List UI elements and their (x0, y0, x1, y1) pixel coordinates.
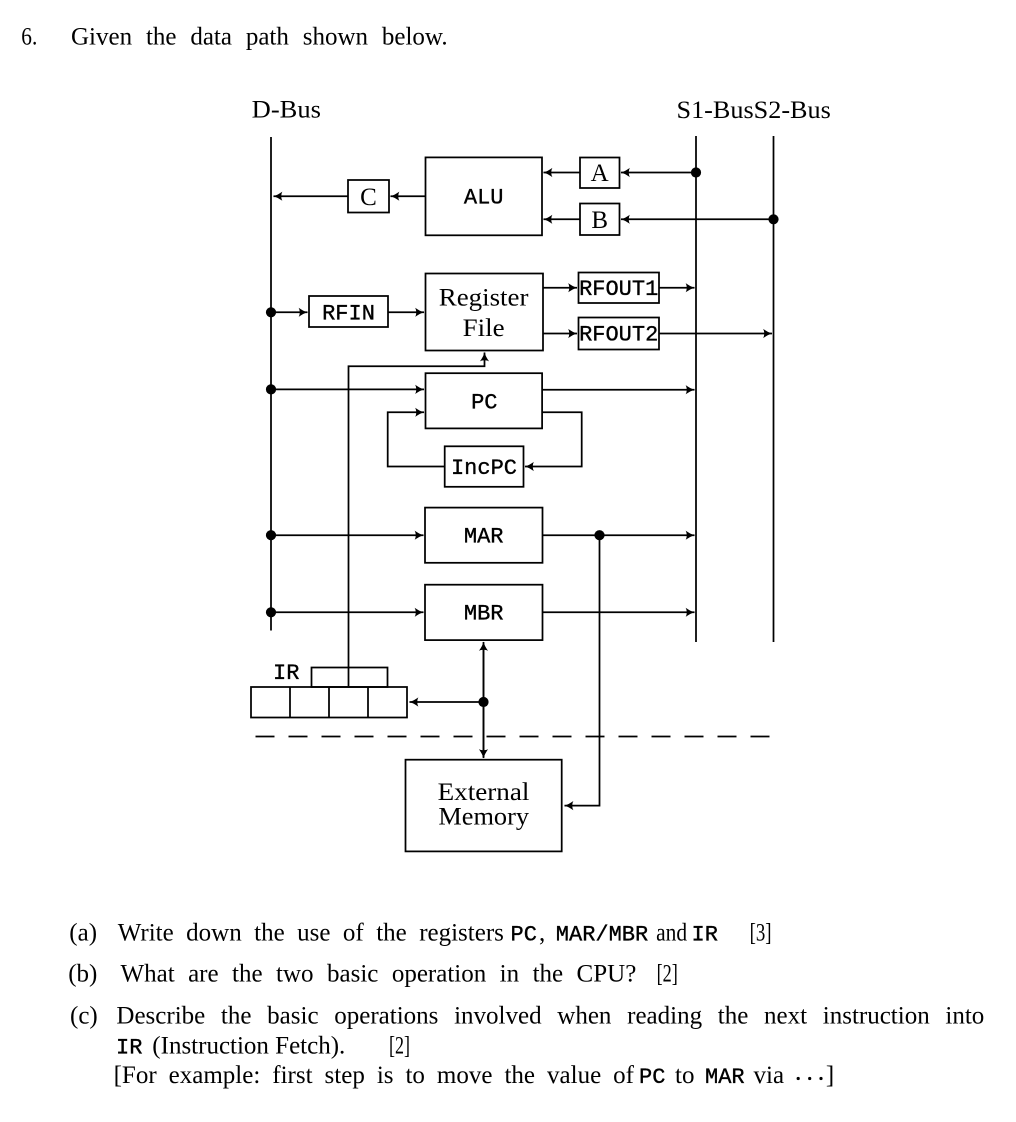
wire A to ALU (544, 172, 581, 174)
svg-text:PC: PC (639, 1065, 665, 1090)
wire RFIN to Register File (388, 311, 424, 313)
register MBR box (425, 585, 543, 640)
svg-text:Register: Register (439, 285, 529, 312)
svg-text:(c): (c) (70, 1003, 98, 1030)
svg-text:via: via (754, 1062, 785, 1089)
wire RFOUT1 to S1-Bus (659, 287, 695, 289)
junction D-Bus / MAR feed (266, 530, 276, 540)
register A box (580, 158, 620, 189)
svg-text:MBR: MBR (464, 602, 504, 627)
svg-text:(b): (b) (68, 961, 97, 988)
wire junction to IR (410, 701, 484, 703)
boundary dashed line (CPU / memory) (256, 736, 777, 738)
svg-text:IR: IR (116, 1036, 142, 1061)
register C box (348, 180, 389, 213)
svg-text:(Instruction Fetch).: (Instruction Fetch). (152, 1033, 345, 1060)
register Register File box (426, 274, 544, 351)
junction D-Bus / MBR feed (266, 607, 276, 617)
svg-text:PC: PC (471, 391, 497, 416)
wire Register File to RFOUT1 (543, 287, 577, 289)
wire S2-Bus vertical (773, 136, 775, 642)
register RFIN box (309, 296, 388, 327)
wire S2-Bus to B (621, 218, 774, 220)
register B box (580, 204, 620, 236)
svg-text:[2]: [2] (657, 961, 678, 988)
wire B to ALU (544, 218, 581, 220)
svg-text:MAR/MBR: MAR/MBR (556, 923, 648, 948)
svg-text:MAR: MAR (705, 1065, 745, 1090)
register IR opcode sub-box (312, 668, 388, 688)
wire D-Bus to MBR (271, 611, 424, 613)
svg-text:What are the two basic operati: What are the two basic operation in the … (121, 961, 637, 988)
wire D-Bus to RFIN (271, 311, 308, 313)
svg-text:C: C (360, 184, 377, 211)
register PC box (426, 373, 543, 428)
junction D-Bus / PC feed (266, 384, 276, 394)
junction MBR-memory / IR tap (478, 697, 488, 707)
svg-text:MAR: MAR (464, 525, 504, 550)
svg-text:to: to (675, 1062, 694, 1089)
svg-text:Write down the use of the regi: Write down the use of the registers (118, 920, 504, 947)
svg-text:File: File (463, 315, 505, 342)
wire MAR tap to External Memory (565, 535, 600, 805)
svg-text:B: B (591, 207, 608, 234)
register ALU box U1 (426, 157, 543, 235)
register RFOUT1 box (579, 273, 660, 304)
register IR cells (251, 687, 407, 718)
register IncPC box (445, 446, 524, 487)
svg-text:IR: IR (273, 661, 299, 686)
svg-text:RFOUT1: RFOUT1 (579, 277, 658, 302)
svg-text:RFIN: RFIN (322, 301, 375, 326)
junction D-Bus / RFIN feed (266, 307, 276, 317)
junction S2-Bus / B feed (768, 214, 778, 224)
junction S1-Bus / A feed (691, 167, 701, 177)
svg-text:PC: PC (511, 923, 537, 948)
wire C to D-Bus (274, 195, 349, 197)
svg-text:,: , (539, 920, 545, 947)
wire IR decode up into Register File (349, 353, 485, 687)
wire MBR to S1-Bus (543, 611, 695, 613)
wire PC to S1-Bus (542, 389, 694, 391)
svg-text:Given the data path shown belo: Given the data path shown below. (71, 23, 448, 50)
svg-text:6.: 6. (21, 23, 37, 50)
svg-text:]: ] (826, 1062, 834, 1089)
register RFOUT2 box (579, 318, 660, 350)
wire D-Bus to PC (271, 388, 424, 390)
svg-text:and: and (656, 920, 687, 947)
svg-text:Memory: Memory (438, 804, 529, 831)
svg-text:IncPC: IncPC (451, 456, 517, 481)
svg-text:External: External (438, 779, 530, 806)
svg-text:[For example: first step is to: [For example: first step is to move the … (114, 1062, 635, 1089)
wire ALU to C (391, 195, 426, 197)
svg-text:Describe the basic operations: Describe the basic operations involved w… (116, 1003, 984, 1030)
svg-text:D-Bus: D-Bus (252, 97, 321, 124)
svg-text:(a): (a) (69, 920, 97, 947)
svg-text:S1-BusS2-Bus: S1-BusS2-Bus (677, 97, 831, 124)
svg-text:RFOUT2: RFOUT2 (579, 323, 658, 348)
svg-text:[2]: [2] (389, 1033, 410, 1060)
register External Memory box (406, 760, 562, 852)
wire RFOUT2 to S2-Bus (659, 333, 772, 335)
wire Register File to RFOUT2 (543, 333, 577, 335)
wire S1-Bus to A (621, 172, 696, 174)
svg-text:ALU: ALU (464, 186, 504, 211)
wire D-Bus to MAR (271, 534, 424, 536)
register MAR box (425, 508, 543, 563)
wire IncPC to PC (left loop) (388, 412, 445, 466)
junction MAR output / memory address tap (594, 530, 604, 540)
svg-text:IR: IR (692, 923, 718, 948)
wire PC to IncPC (right loop) (525, 412, 582, 466)
wire S1-Bus vertical (695, 136, 697, 642)
wire MAR to S1-Bus (543, 534, 695, 536)
wire MBR to External Memory (bidirectional) (483, 642, 485, 757)
wire D-Bus vertical (270, 137, 272, 631)
svg-text:[3]: [3] (750, 920, 772, 947)
svg-text:A: A (591, 160, 609, 187)
